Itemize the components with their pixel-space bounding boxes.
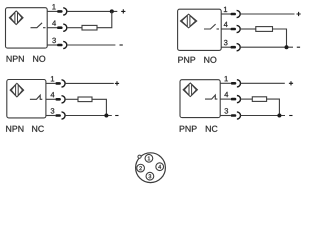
connector pin 1 symbol (PNP NC) [231, 80, 241, 87]
wire 3 to minus terminal (PNP NO) [240, 46, 293, 48]
wire load to minus rail (NPN NC) [92, 99, 106, 115]
connector pin 4 hole [156, 163, 164, 171]
label PNP (PNP NO) [178, 57, 195, 63]
wire 3 to minus terminal (NPN NC) [65, 115, 112, 117]
wire pin4 stub (NPN NO) [47, 27, 57, 29]
label NPN (NPN NO) [7, 56, 24, 62]
pin 1 label (PNP NC) [225, 76, 228, 81]
connector pin 3 symbol (PNP NO) [230, 44, 240, 51]
wire pin1 stub (PNP NC) [220, 82, 231, 84]
wire 1 to plus terminal (NPN NC) [65, 82, 114, 84]
plus terminal (PNP NO) [297, 12, 301, 16]
NPN NC inductive sensor symbol (diamond with triangles) [10, 83, 24, 97]
load resistor (PNP NO) [256, 27, 273, 32]
label NO (PNP NO) [204, 57, 216, 63]
label NPN (NPN NC) [6, 126, 23, 132]
switch contact NC (PNP NC) [205, 95, 217, 99]
pin 4 label (PNP NO) [224, 22, 228, 27]
wire 4 to load (NPN NO) [67, 27, 82, 29]
wire 3 to minus terminal (PNP NC) [241, 115, 286, 117]
wire 4 to load (PNP NO) [240, 28, 256, 30]
label NO (NPN NO) [33, 56, 45, 62]
pin 3 label (NPN NC) [51, 108, 55, 113]
connector pin 2 hole [137, 164, 145, 172]
wire 4 to load (NPN NC) [65, 98, 78, 100]
pin 1 label (PNP NO) [224, 7, 227, 12]
wire 3 to minus rail (NPN NO) [67, 44, 116, 46]
sensor body box (NPN NC) [7, 80, 46, 118]
label PNP (PNP NC) [180, 126, 197, 132]
minus terminal (PNP NC) [289, 115, 292, 117]
connector pin 4 symbol (NPN NC) [55, 96, 65, 103]
connector pin 3 symbol (NPN NC) [55, 112, 65, 119]
junction node on minus rail (PNP NC) [277, 114, 281, 118]
minus terminal (NPN NO) [120, 44, 123, 46]
connector pin 3 symbol (NPN NO) [57, 41, 67, 48]
PNP NO inductive sensor symbol (diamond with triangles) [180, 14, 196, 28]
pin 3 label (NPN NO) [52, 38, 56, 43]
pin 3 label (PNP NO) [224, 40, 228, 45]
wire pin3 stub (PNP NO) [221, 46, 230, 48]
wire load to minus rail (PNP NC) [267, 99, 280, 115]
plus terminal (NPN NC) [115, 81, 119, 85]
connector pin 3 hole [146, 172, 154, 180]
junction node on minus rail (PNP NO) [285, 45, 289, 49]
connector pin 4 symbol (PNP NC) [231, 96, 241, 103]
connector face circle [136, 153, 166, 183]
connector pin 1 hole [145, 154, 153, 162]
sensor body box (PNP NO) [178, 9, 222, 50]
load resistor (NPN NO) [82, 25, 97, 30]
pin 1 label (NPN NO) [52, 4, 55, 9]
label NC (PNP NC) [206, 126, 218, 132]
connector pin 4 symbol (PNP NO) [230, 25, 240, 32]
plus terminal (PNP NC) [289, 81, 293, 85]
junction node on + rail (NPN NO) [110, 9, 114, 13]
pin 4 label (NPN NC) [51, 92, 55, 97]
sensor body box (PNP NC) [180, 80, 220, 118]
minus terminal (PNP NO) [297, 46, 300, 48]
switch contact NO (NPN NO) [31, 23, 46, 28]
wire pin4 stub (PNP NO) [221, 28, 230, 30]
sensor body box (NPN NO) [6, 8, 48, 48]
pin 4 label (PNP NC) [224, 92, 228, 97]
switch contact NC (NPN NC) [30, 95, 42, 99]
connector pin 3 symbol (PNP NC) [231, 112, 241, 119]
junction node on minus rail (NPN NC) [104, 114, 108, 118]
switch contact NO (PNP NO) [204, 24, 219, 29]
wire load to minus rail (PNP NO) [273, 29, 287, 47]
wire 1 to plus terminal (PNP NO) [240, 13, 294, 15]
wire pin3 stub (PNP NC) [220, 115, 231, 117]
keying notch circle [138, 155, 141, 158]
pin 1 label (NPN NC) [51, 76, 54, 81]
label NC (NPN NC) [32, 126, 44, 132]
connector pin 1 symbol (NPN NC) [55, 80, 65, 87]
plus terminal (NPN NO) [121, 9, 125, 13]
connector pin 4 symbol (NPN NO) [57, 24, 67, 31]
minus terminal (NPN NC) [115, 115, 118, 117]
load resistor (PNP NC) [252, 97, 266, 102]
connector pin 1 symbol (NPN NO) [57, 8, 67, 15]
pin 3 label (PNP NC) [224, 108, 228, 113]
connector pin 1 symbol (PNP NO) [230, 10, 240, 17]
wire load to + rail (NPN NO) [97, 11, 112, 27]
wire 4 to load (PNP NC) [241, 98, 253, 100]
wire pin1 stub (NPN NO) [47, 10, 57, 12]
wire pin3 stub (NPN NC) [46, 115, 55, 117]
wire pin4 stub (PNP NC) [220, 98, 231, 100]
NPN NO inductive sensor symbol (diamond with triangles) [9, 11, 23, 25]
wire pin3 stub (NPN NO) [47, 44, 57, 46]
wire 1 to plus rail (NPN NO) [67, 10, 118, 12]
wire 1 to plus terminal (PNP NC) [241, 82, 285, 84]
load resistor (NPN NC) [78, 97, 92, 102]
pin 4 label (NPN NO) [52, 20, 56, 25]
wire pin1 stub (PNP NO) [221, 13, 230, 15]
wire pin1 stub (NPN NC) [46, 82, 55, 84]
wire pin4 stub (NPN NC) [46, 98, 55, 100]
PNP NC inductive sensor symbol (diamond with triangles) [183, 83, 197, 97]
